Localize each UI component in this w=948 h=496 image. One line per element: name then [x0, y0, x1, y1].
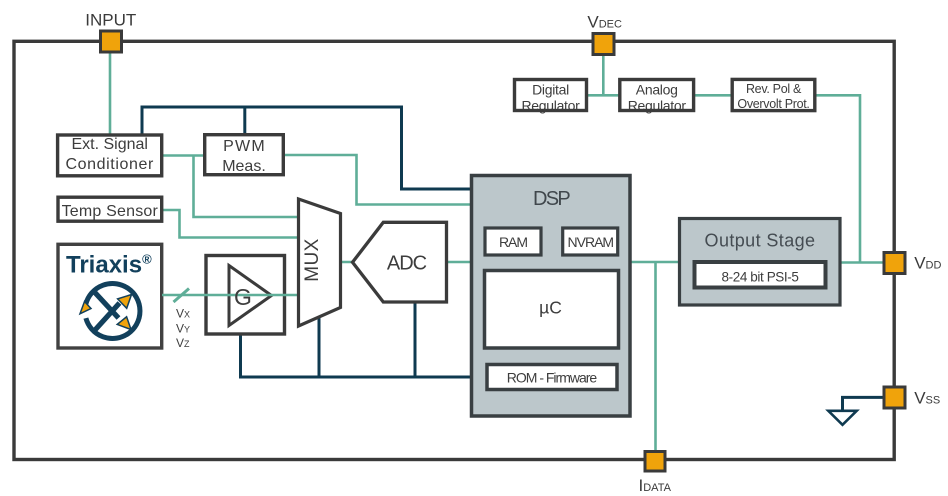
box ROM - Firmware	[487, 365, 617, 390]
svg-text:VX: VX	[176, 307, 190, 321]
label Vx Vy Vz	[176, 307, 190, 351]
wire ADC to DSP	[444, 261, 473, 264]
box Digital Regulator	[515, 80, 587, 114]
wire DSP to Output Stage	[628, 261, 682, 264]
svg-text:Overvolt Prot.: Overvolt Prot.	[737, 97, 809, 111]
wire stub navy into PWM Meas. top	[243, 107, 246, 138]
svg-text:Triaxis®: Triaxis®	[66, 252, 152, 279]
wire Ext. Signal Conditioner to PWM Meas.	[158, 154, 210, 157]
wire Analog Regulator to Rev. Pol	[694, 94, 733, 97]
dsp DSP block	[472, 176, 631, 417]
adc ADC	[353, 222, 447, 302]
wire VDEC pin down	[602, 53, 605, 95]
wire branch to IDATA pin	[654, 262, 657, 452]
wire branch to MUX input 1	[194, 156, 301, 218]
svg-text:INPUT: INPUT	[85, 11, 136, 30]
outer case border	[14, 41, 894, 459]
pin IDATA	[645, 452, 665, 472]
box 8-24 bit PSI-5	[695, 262, 826, 288]
svg-text:Ext. Signal: Ext. Signal	[71, 136, 147, 153]
svg-text:VDD: VDD	[914, 254, 941, 273]
wire Temp Sensor to MUX input 2	[158, 210, 300, 238]
svg-text:ROM - Firmware: ROM - Firmware	[507, 370, 598, 386]
box RAM	[485, 228, 541, 255]
svg-text:VY: VY	[176, 322, 190, 336]
wire MUX to ADC	[338, 261, 356, 264]
Triaxis logo circular arrow	[80, 283, 140, 338]
wire INPUT to Ext. Signal Conditioner	[109, 53, 112, 140]
svg-text:Meas.: Meas.	[222, 158, 266, 175]
box microcontroller uC	[485, 271, 619, 349]
svg-text:IDATA: IDATA	[639, 476, 672, 495]
svg-text:VDEC: VDEC	[587, 13, 622, 32]
svg-text:VZ: VZ	[176, 336, 190, 350]
svg-text:8-24 bit PSI-5: 8-24 bit PSI-5	[722, 270, 799, 285]
pin VDEC	[593, 34, 614, 55]
svg-text:VSS: VSS	[914, 389, 940, 408]
svg-text:Temp Sensor: Temp Sensor	[62, 203, 159, 220]
svg-text:RAM: RAM	[499, 234, 527, 250]
svg-text:NVRAM: NVRAM	[568, 234, 614, 250]
svg-text:PWM: PWM	[223, 138, 266, 155]
wire Rev. Pol to VDD rail	[814, 95, 860, 262]
wire Ext. Signal Conditioner to DSP (navy)	[142, 107, 473, 189]
Triaxis logo arrow NW-SE	[94, 291, 132, 330]
box Triaxis sensor	[58, 244, 162, 348]
box Analog Regulator	[620, 80, 694, 114]
pin INPUT	[101, 31, 122, 52]
output stage block	[680, 219, 841, 306]
pin VSS	[884, 387, 905, 408]
svg-text:MUX: MUX	[302, 238, 323, 281]
svg-text:Conditioner: Conditioner	[65, 156, 153, 173]
box Rev. Pol &amp; Overvolt Prot.	[732, 79, 815, 111]
svg-text:G: G	[234, 284, 252, 310]
svg-text:ADC: ADC	[387, 253, 427, 275]
wire MUX bottom to bus	[318, 310, 321, 377]
wire Output Stage to VDD pin	[839, 261, 885, 264]
bus slash marker	[174, 289, 190, 303]
svg-text:Output Stage: Output Stage	[705, 231, 816, 251]
svg-text:Regulator: Regulator	[628, 97, 687, 113]
amplifier G box	[206, 256, 285, 335]
pin VDD	[884, 253, 905, 274]
box NVRAM	[563, 228, 618, 255]
svg-text:µC: µC	[539, 298, 562, 318]
svg-text:Analog: Analog	[636, 82, 678, 98]
mux MUX	[299, 199, 341, 326]
ground symbol at VSS	[828, 397, 885, 424]
wire Digital Regulator to Analog Regulator	[587, 94, 621, 97]
svg-text:Rev. Pol &: Rev. Pol &	[746, 82, 802, 96]
box PWM Meas.	[205, 135, 284, 175]
Triaxis logo arrow SW-NE	[95, 295, 132, 331]
wire PWM Meas. to DSP	[280, 155, 473, 205]
box Temp Sensor	[58, 197, 162, 221]
wire Triaxis to MUX through G	[162, 294, 300, 297]
wire navy bottom bus to DSP	[241, 332, 474, 377]
svg-text:Digital: Digital	[532, 82, 569, 98]
svg-text:Regulator: Regulator	[521, 97, 580, 113]
svg-text:DSP: DSP	[533, 188, 570, 210]
box Ext. Signal Conditioner	[58, 135, 162, 176]
wire ADC bottom to bus	[414, 295, 417, 377]
